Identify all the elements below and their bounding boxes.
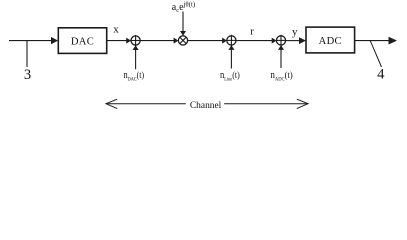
block DAC [58,28,106,54]
wire summer S2 to summer S3 [236,40,273,42]
summer S1 [131,35,140,46]
noise input arrow n_Line [228,45,234,50]
svg-text:x: x [113,24,119,36]
svg-text:3: 3 [24,67,31,83]
wire DAC to summer S1 [107,40,127,42]
wire input [9,40,52,42]
arrowhead into ADC [299,37,306,44]
carrier input arrow [182,12,184,32]
channel chevron left [106,99,117,108]
arrowhead into DAC [51,37,58,44]
bus width tick 3 [26,41,28,67]
noise input arrow n_ADC [278,45,284,50]
noise input arrow n_DAC [133,45,139,50]
summer S3 [276,35,285,46]
channel extent line left [106,103,186,105]
multiplier M1 [178,36,187,45]
summer S2 [227,35,236,46]
arrowhead into summer S3 [272,38,277,44]
bus width tick 4 [370,41,381,67]
wire output [355,40,390,42]
svg-text:Channel: Channel [190,100,222,111]
block ADC [306,27,355,53]
svg-text:y: y [292,26,298,38]
channel extent line right [224,103,308,105]
arrowhead into multiplier [174,38,179,44]
arrowhead into summer S2 [222,38,227,44]
svg-text:4: 4 [377,67,385,83]
arrowhead into summer S1 [126,38,131,44]
svg-text:DAC: DAC [71,36,94,47]
svg-text:r: r [250,26,254,38]
svg-text:ADC: ADC [319,36,342,47]
arrowhead output [389,37,398,45]
wire summer S1 to multiplier [140,40,174,42]
wire multiplier to summer S2 [188,40,223,42]
wire summer S3 to ADC [286,40,300,42]
channel chevron right [297,99,308,108]
